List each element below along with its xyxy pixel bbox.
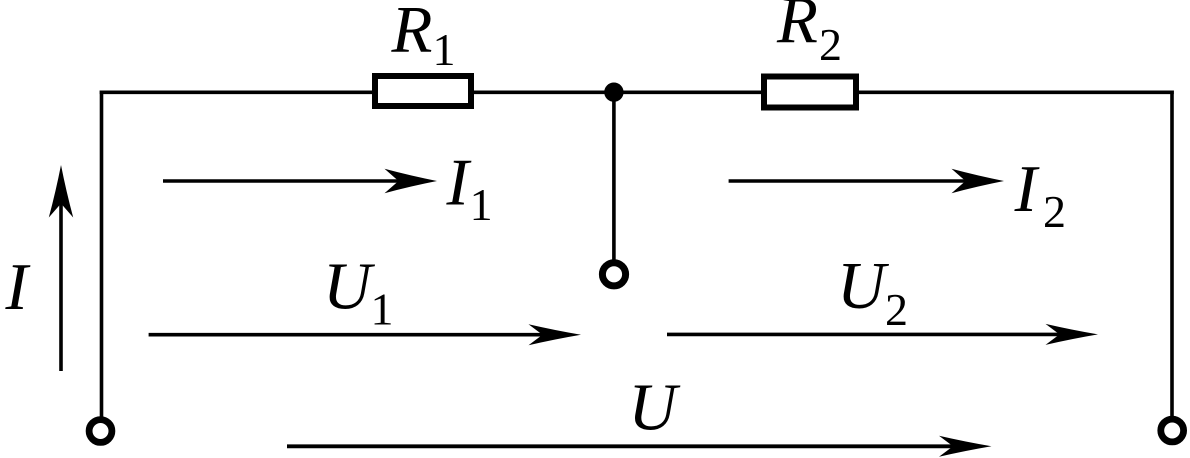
svg-text:R: R (776, 0, 818, 57)
label R2 (776, 0, 842, 70)
svg-text:U: U (628, 371, 681, 445)
svg-text:1: 1 (371, 284, 394, 335)
resistor R2 (764, 77, 856, 108)
svg-text:U: U (323, 250, 376, 324)
svg-text:2: 2 (885, 284, 908, 335)
wire junction to middle terminal (612, 92, 616, 261)
arrow U (287, 436, 992, 457)
terminal right (1161, 419, 1184, 442)
svg-text:R: R (391, 0, 433, 67)
svg-text:1: 1 (470, 179, 493, 230)
arrow I (49, 165, 73, 371)
arrow U1 (149, 324, 581, 345)
resistor R1 (375, 76, 471, 106)
label I2 (1014, 152, 1066, 237)
left wire (100, 91, 104, 419)
right wire (1170, 91, 1174, 419)
terminal middle (602, 263, 625, 286)
node junction dot (604, 83, 623, 102)
svg-text:2: 2 (819, 19, 842, 70)
label U (628, 371, 681, 445)
svg-text:1: 1 (433, 24, 456, 75)
svg-text:I: I (5, 250, 31, 324)
top wire (100, 91, 1174, 95)
arrow U2 (667, 324, 1098, 345)
svg-text:2: 2 (1043, 186, 1066, 237)
svg-text:I: I (1014, 152, 1040, 226)
label I1 (446, 145, 493, 230)
terminal left (89, 420, 112, 443)
label U2 (837, 249, 908, 335)
arrow I2 (729, 169, 1004, 193)
label R1 (391, 0, 456, 75)
label U1 (323, 250, 394, 335)
svg-text:U: U (837, 249, 890, 323)
label I (5, 250, 31, 324)
svg-text:I: I (446, 145, 472, 219)
arrow I1 (163, 169, 437, 193)
